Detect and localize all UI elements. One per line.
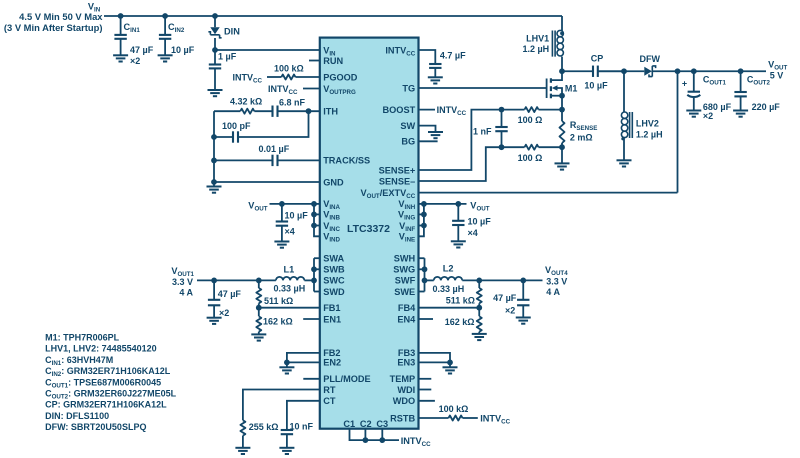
wire VINC stub <box>314 225 320 227</box>
svg-text:47 µF: 47 µF <box>130 45 154 55</box>
svg-text:47 µF: 47 µF <box>218 289 242 299</box>
svg-text:162 kΩ: 162 kΩ <box>445 317 475 327</box>
svg-text:C2: C2 <box>360 419 372 429</box>
svg-text:1 µF: 1 µF <box>218 52 237 62</box>
wire VIN bus left vertical <box>314 204 320 236</box>
node junction CIN2 on rail <box>162 13 168 19</box>
wire C3 stub down <box>381 429 383 440</box>
ground COUT2 <box>733 111 748 117</box>
node junction SWG <box>422 266 428 272</box>
svg-text:SENSE–: SENSE– <box>379 176 415 186</box>
wire SWE stub <box>419 291 425 293</box>
svg-text:2 mΩ: 2 mΩ <box>570 132 593 142</box>
capacitor 10uF x4 right <box>457 204 459 221</box>
svg-text:6.8 nF: 6.8 nF <box>279 97 306 107</box>
svg-text:PGOOD: PGOOD <box>323 72 358 82</box>
resistor 162k FB1 lower <box>258 308 260 317</box>
node junction EN3 <box>447 360 453 366</box>
node junction below DIN / VIN pin node <box>212 47 218 53</box>
wire VOUTPRG <box>303 88 320 90</box>
svg-text:511 kΩ: 511 kΩ <box>264 296 293 306</box>
node junction C2 <box>363 437 369 443</box>
wire FB4 <box>419 307 480 309</box>
svg-text:EN3: EN3 <box>397 358 415 368</box>
svg-text:FB4: FB4 <box>398 303 416 313</box>
wire RUN stub <box>309 60 320 62</box>
wire rail to ground <box>213 182 215 187</box>
svg-text:SENSE+: SENSE+ <box>379 165 416 175</box>
resistor 100k RSTB <box>449 416 463 421</box>
wire WDI stub <box>419 389 432 391</box>
wire EXTVCC vertical <box>677 71 679 192</box>
node junction COUT1 <box>691 68 697 74</box>
svg-text:SWE: SWE <box>394 287 415 297</box>
svg-text:SWG: SWG <box>393 265 415 275</box>
wire LHV1 to M1 drain node <box>561 57 563 72</box>
svg-text:CP: CP <box>591 54 604 64</box>
wire C2 stub down <box>364 429 366 440</box>
wire EN2 <box>287 361 320 363</box>
transistor M1 gate bar <box>546 79 548 99</box>
wire right quad bus to cap and label <box>424 203 467 205</box>
node junction VINC bus <box>311 223 317 229</box>
wire LHV2 to ground <box>623 138 625 160</box>
capacitor COUT2 <box>740 71 742 92</box>
diode DIN <box>214 16 216 27</box>
svg-text:TEMP: TEMP <box>390 374 416 384</box>
ground 47uF left <box>207 318 222 324</box>
ground 10nF <box>279 448 294 454</box>
capacitor 0.01uF TRACK/SS <box>214 159 273 161</box>
node junction 47uF left <box>211 278 217 284</box>
svg-text:SWD: SWD <box>323 287 345 297</box>
wire left compensation rail <box>213 111 215 182</box>
svg-text:EN4: EN4 <box>397 314 416 324</box>
node junction EN2 <box>284 360 290 366</box>
diode DFW <box>598 70 645 72</box>
node junction VINH bus <box>421 201 427 207</box>
svg-text:DIN: DIN <box>224 27 240 37</box>
node junction 47uF right <box>520 278 526 284</box>
ground COUT1 <box>686 111 701 117</box>
wire GND pin <box>214 181 320 183</box>
capacitor CIN1 <box>120 16 122 35</box>
svg-text:LHV2: LHV2 <box>636 118 659 128</box>
svg-text:4.7 µF: 4.7 µF <box>440 50 466 60</box>
svg-text:100 Ω: 100 Ω <box>518 115 543 125</box>
svg-text:100 Ω: 100 Ω <box>518 153 543 163</box>
node junction COUT2 <box>738 68 744 74</box>
svg-text:RT: RT <box>323 385 336 395</box>
svg-text:100 kΩ: 100 kΩ <box>439 404 469 414</box>
node junction M1 source <box>559 93 565 99</box>
node junction VING bus <box>421 212 427 218</box>
svg-text:EN1: EN1 <box>323 314 341 324</box>
svg-text:4 A: 4 A <box>179 287 193 297</box>
wire BOOST stub <box>419 109 436 111</box>
resistor 4.32k ITH <box>214 110 240 112</box>
svg-text:10 µF: 10 µF <box>171 45 195 55</box>
svg-text:220 µF: 220 µF <box>752 102 781 112</box>
wire VING stub <box>419 213 424 215</box>
inductor LHV2 core lines <box>630 112 633 138</box>
wire SW bus right <box>424 258 426 291</box>
capacitor 100pF <box>233 131 238 142</box>
svg-text:511 kΩ: 511 kΩ <box>446 296 475 306</box>
svg-text:4.5 V Min 50 V Max: 4.5 V Min 50 V Max <box>19 11 103 22</box>
svg-text:C3: C3 <box>376 419 388 429</box>
wire DFW to output node <box>652 70 766 72</box>
wire WDO stub <box>419 400 435 402</box>
svg-text:C1: C1 <box>343 419 355 429</box>
inductor L2 <box>425 279 434 281</box>
svg-text:LHV1: LHV1 <box>526 33 549 43</box>
svg-text:×2: ×2 <box>505 305 515 315</box>
wire SW pin to ground <box>419 126 436 132</box>
node junction track rail <box>211 158 217 164</box>
svg-text:DIN: DFLS1100: DIN: DFLS1100 <box>45 411 109 421</box>
wire C1 stub down <box>350 429 400 440</box>
svg-text:FB2: FB2 <box>323 348 340 358</box>
capacitor 1nF <box>501 110 503 127</box>
svg-text:3.3 V: 3.3 V <box>546 276 567 286</box>
svg-text:PLL/MODE: PLL/MODE <box>323 374 370 384</box>
svg-text:1.2 µH: 1.2 µH <box>522 44 549 54</box>
node junction output EXTVCC drop <box>675 68 681 74</box>
svg-text:(3 V Min After Startup): (3 V Min After Startup) <box>4 22 103 33</box>
ground EN2 <box>286 362 288 367</box>
svg-text:SWB: SWB <box>323 265 345 275</box>
capacitor 47uF x2 right <box>522 280 524 299</box>
svg-text:4.32 kΩ: 4.32 kΩ <box>230 97 262 107</box>
wire RSTB <box>419 417 449 419</box>
wire FB1 <box>259 307 320 309</box>
wire VOUT to VIN bus left <box>270 203 315 205</box>
svg-text:L1: L1 <box>284 264 295 274</box>
wire SWG stub <box>419 268 425 270</box>
ground 4.7uF <box>428 77 443 83</box>
ground SW pin <box>428 132 443 138</box>
svg-text:×2: ×2 <box>219 308 229 318</box>
svg-text:4 A: 4 A <box>546 287 560 297</box>
svg-text:10 µF: 10 µF <box>285 210 309 220</box>
inductor L1 <box>276 277 304 281</box>
svg-text:100 kΩ: 100 kΩ <box>274 64 304 74</box>
svg-text:FB1: FB1 <box>323 303 340 313</box>
wire EN3 <box>419 361 451 363</box>
svg-text:SWH: SWH <box>394 254 416 264</box>
wire INTVCC pin to cap <box>419 50 436 64</box>
svg-text:10 nF: 10 nF <box>290 421 314 431</box>
capacitor COUT1 polarized <box>693 71 695 91</box>
node junction VINF bus <box>421 223 427 229</box>
wire SWH stub <box>419 257 425 259</box>
svg-text:M1: M1 <box>565 83 578 93</box>
wire TEMP stub <box>419 378 432 380</box>
ground CIN1 <box>113 55 128 61</box>
capacitor 4.7uF INTVCC <box>429 64 441 68</box>
svg-text:×4: ×4 <box>285 227 295 237</box>
svg-text:47 µF: 47 µF <box>493 293 517 303</box>
svg-text:BOOST: BOOST <box>383 105 416 115</box>
resistor 162k FB4 lower <box>478 308 480 317</box>
wire PLL/MODE stub <box>303 378 320 380</box>
wire VOUT1 row <box>197 279 276 281</box>
ground EN3 <box>449 362 451 367</box>
node junction GND rail <box>211 179 217 185</box>
wire TG to gate <box>419 87 547 89</box>
node junction CP DFW LHV2 <box>621 68 627 74</box>
wire CT <box>287 401 320 430</box>
svg-text:×2: ×2 <box>703 111 713 121</box>
wire VOUT/EXTVCC row <box>419 192 678 194</box>
wire SWB stub <box>314 268 320 270</box>
ground main GND <box>207 187 222 193</box>
transistor M1 body lead and arrow <box>557 88 563 96</box>
wire RSENSE to ground <box>561 147 563 163</box>
capacitor CP <box>562 70 593 72</box>
transistor M1 channel segments <box>550 78 552 98</box>
svg-text:0.33 µH: 0.33 µH <box>274 283 306 293</box>
capacitor CIN2 <box>164 16 166 35</box>
wire SW bus left <box>313 258 315 291</box>
wire M1 source to sense node <box>561 96 563 121</box>
resistor 511k FB4 upper <box>478 280 480 288</box>
inductor LHV1 core lines <box>552 31 555 57</box>
node junction SWC <box>311 278 317 284</box>
wire SENSE+ route <box>419 110 502 170</box>
ground CIN2 <box>158 55 173 61</box>
svg-text:100 pF: 100 pF <box>222 121 251 131</box>
wire VOUT4 row <box>462 279 542 281</box>
node junction SWB <box>311 266 317 272</box>
svg-text:10 µF: 10 µF <box>584 80 608 90</box>
resistor 100 ohm top <box>502 109 525 111</box>
svg-text:LTC3372: LTC3372 <box>347 223 390 235</box>
capacitor 10uF x4 left <box>281 204 283 222</box>
node junction 1nF top <box>499 107 505 113</box>
svg-text:EN2: EN2 <box>323 358 341 368</box>
ground 10uF x4 left <box>274 242 289 248</box>
svg-text:TG: TG <box>402 83 415 93</box>
ground 47uF right <box>516 318 531 324</box>
svg-text:0.33 µH: 0.33 µH <box>433 284 465 294</box>
resistor RSENSE <box>560 121 565 143</box>
capacitor 10nF CT <box>281 430 293 434</box>
svg-text:10 µF: 10 µF <box>468 216 492 226</box>
capacitor 1uF at VIN pin <box>214 50 216 65</box>
inductor LHV1 winding <box>557 30 563 36</box>
svg-text:+: + <box>682 79 687 89</box>
svg-text:SWA: SWA <box>323 254 344 264</box>
wire BG stub <box>419 140 438 142</box>
svg-text:L2: L2 <box>443 264 454 274</box>
wire FB2 to EN2 ground <box>287 353 320 363</box>
wire to VIN pin <box>215 49 320 51</box>
svg-text:ITH: ITH <box>323 107 338 117</box>
svg-text:FB3: FB3 <box>398 348 415 358</box>
wire SENSE- route <box>419 147 502 181</box>
svg-text:TRACK/SS: TRACK/SS <box>323 156 370 166</box>
svg-text:SW: SW <box>400 121 415 131</box>
node junction M1 drain / CP <box>559 68 565 74</box>
svg-text:162 kΩ: 162 kΩ <box>263 317 293 327</box>
svg-text:SWC: SWC <box>323 276 345 286</box>
svg-text:RSTB: RSTB <box>390 413 415 423</box>
node junction 100pF on left rail <box>211 134 217 140</box>
node junction 1nF bottom <box>499 144 505 150</box>
svg-text:M1: TPH7R006PL: M1: TPH7R006PL <box>45 333 120 343</box>
wire VINA stub <box>314 203 320 205</box>
resistor 511k FB1 upper <box>258 280 260 288</box>
transistor M1 drain lead <box>552 71 563 80</box>
wire VINF stub <box>419 225 424 227</box>
ground 10uF x4 right <box>451 241 466 247</box>
node junction C3 <box>379 437 385 443</box>
wire VIN top rail <box>104 15 562 17</box>
node junction 10uF x4 right <box>455 201 461 207</box>
ground 255k <box>235 448 250 454</box>
wire VINH stub <box>419 203 424 205</box>
node junction ITH <box>306 108 312 114</box>
svg-text:WDO: WDO <box>393 396 415 406</box>
capacitor 6.8nF ITH <box>254 110 272 112</box>
svg-text:SWF: SWF <box>395 276 416 286</box>
svg-text:DFW: SBRT20U50SLPQ: DFW: SBRT20U50SLPQ <box>45 422 146 432</box>
svg-text:WDI: WDI <box>397 385 415 395</box>
op-amp U1 LTC3372 IC body <box>320 38 419 429</box>
wire rail down to LHV1 <box>561 16 563 31</box>
svg-text:DFW: DFW <box>640 54 661 64</box>
wire ITH junction down to 100pF branch <box>238 111 309 137</box>
svg-text:×4: ×4 <box>468 228 478 238</box>
node junction divider1 <box>256 278 262 284</box>
ground 162k right <box>472 334 487 340</box>
node junction SWF <box>422 278 428 284</box>
svg-text:BG: BG <box>401 137 415 147</box>
svg-text:CT: CT <box>323 396 336 406</box>
svg-text:CP: GRM32ER71H106KA12L: CP: GRM32ER71H106KA12L <box>45 400 167 410</box>
svg-text:1.2 µH: 1.2 µH <box>636 129 663 139</box>
svg-text:×2: ×2 <box>130 56 140 66</box>
wire RT <box>243 390 320 421</box>
svg-text:3.3 V: 3.3 V <box>172 277 193 287</box>
ground RSENSE <box>555 163 570 169</box>
wire VIN bus right vertical <box>419 204 424 236</box>
node junction sense top <box>559 107 565 113</box>
node junction VINA bus <box>311 201 317 207</box>
resistor 100 ohm bottom <box>502 146 525 148</box>
inductor LHV1 polarity dot <box>560 32 563 35</box>
ground LHV2 <box>617 160 632 166</box>
inductor LHV2 polarity dot <box>621 137 624 140</box>
node junction VINB bus <box>311 212 317 218</box>
svg-text:GND: GND <box>323 177 344 187</box>
svg-text:LHV1, LHV2: 74485540120: LHV1, LHV2: 74485540120 <box>45 344 157 354</box>
node junction 10uF x4 left <box>279 201 285 207</box>
wire SWD stub <box>314 291 320 293</box>
ground 162k left <box>251 334 266 340</box>
node junction FB1 <box>256 305 262 311</box>
node junction CIN1 on rail <box>118 13 124 19</box>
node junction divider4 <box>476 278 482 284</box>
node junction sense bottom <box>559 144 565 150</box>
inductor LHV2 winding <box>623 71 625 112</box>
ground 1uF cap <box>208 90 223 96</box>
node junction DIN on rail <box>212 13 218 19</box>
svg-text:255 kΩ: 255 kΩ <box>249 422 279 432</box>
wire SWA stub <box>314 257 320 259</box>
wire EN4 stub <box>419 318 434 320</box>
capacitor 47uF x2 left <box>213 280 215 299</box>
resistor 255k RT <box>240 420 245 435</box>
wire FB3 to EN3 ground <box>419 353 451 363</box>
transistor M1 source lead <box>552 95 563 97</box>
svg-text:1 nF: 1 nF <box>473 126 492 136</box>
wire EN1 stub <box>303 318 320 320</box>
resistor 100k PGOOD pull-up <box>267 76 281 78</box>
svg-text:5 V: 5 V <box>770 70 784 80</box>
svg-text:0.01 µF: 0.01 µF <box>259 144 290 154</box>
svg-text:RUN: RUN <box>323 56 343 66</box>
wire L1 to SW bus <box>304 279 314 281</box>
wire VINB stub <box>314 213 320 215</box>
node junction FB4 <box>476 305 482 311</box>
